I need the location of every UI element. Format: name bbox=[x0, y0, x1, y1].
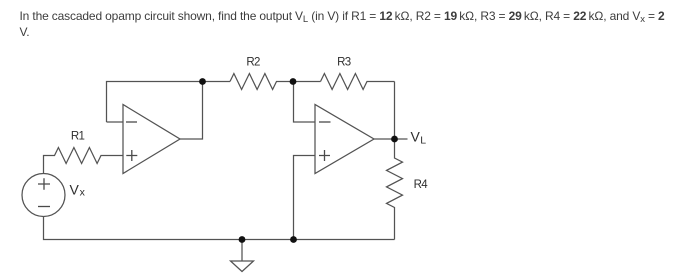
svg-text:V: V bbox=[70, 182, 80, 198]
svg-text:L: L bbox=[420, 135, 426, 147]
svg-text:R3: R3 bbox=[337, 57, 351, 69]
svg-text:R1: R1 bbox=[71, 130, 85, 142]
svg-text:x: x bbox=[80, 187, 86, 199]
svg-text:R2: R2 bbox=[246, 57, 260, 69]
svg-text:V: V bbox=[411, 128, 421, 144]
svg-text:R4: R4 bbox=[414, 179, 429, 191]
